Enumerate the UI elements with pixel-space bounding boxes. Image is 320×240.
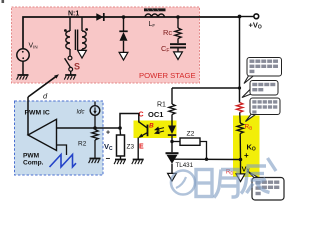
feedback drop wire: [239, 17, 241, 103]
transformer T1: [64, 17, 88, 50]
inductor LF: [145, 14, 165, 17]
svg-text:+: +: [106, 130, 110, 137]
svg-text:Comp.: Comp.: [23, 160, 44, 167]
injection resistor (red): [237, 103, 243, 113]
svg-text:LF: LF: [149, 21, 156, 28]
PWM IC box: [15, 101, 104, 175]
diode D1: [96, 13, 103, 20]
svg-text:RB: RB: [245, 124, 253, 131]
impedance Z3: [119, 128, 122, 135]
resistor RB: [237, 123, 243, 133]
wire to R1: [172, 87, 240, 89]
svg-text:E: E: [139, 144, 144, 151]
freewheeling diode D2: [123, 17, 125, 31]
svg-text:TL431: TL431: [176, 162, 194, 169]
svg-text:OC1: OC1: [148, 110, 163, 119]
svg-text:+: +: [244, 151, 249, 160]
svg-text:B: B: [149, 123, 154, 130]
emitter wire: [137, 138, 139, 160]
current source IDC: [94, 102, 96, 107]
svg-text:PWM: PWM: [23, 153, 40, 160]
d arrow: [28, 77, 56, 97]
corner mark: [2, 0, 5, 3]
wire: [22, 61, 24, 75]
power stage box: [12, 7, 200, 83]
svg-text:Z2: Z2: [187, 131, 195, 138]
svg-text:R1: R1: [157, 102, 166, 109]
comparator output wire: [27, 97, 29, 135]
switch S: [69, 49, 71, 56]
node ref/divider: [239, 158, 243, 162]
impedance Z2: [170, 140, 173, 143]
svg-text:Rc: Rc: [163, 28, 172, 37]
resistor R2: [92, 130, 98, 140]
ground under switch: [64, 75, 76, 80]
PWM comparator: [28, 119, 57, 150]
svg-text:S: S: [74, 62, 80, 72]
node J1: [122, 15, 126, 19]
watermark logo circle: [171, 171, 195, 195]
sawtooth input wire: [57, 145, 67, 155]
REF wire: [174, 158, 241, 160]
svg-text:Z3: Z3: [127, 144, 135, 151]
light arrows: [155, 127, 164, 133]
node J2: [176, 15, 180, 19]
callout bubble 1: [244, 58, 282, 84]
opto LED: [168, 126, 176, 135]
watermark char RI: [196, 170, 212, 197]
TL431 U2: [166, 152, 179, 154]
sawtooth: [50, 155, 77, 168]
watermark char CHEN: [241, 158, 276, 194]
optocoupler highlight box OC1: [134, 121, 177, 139]
opto transistor: [147, 125, 149, 137]
core bar: [144, 8, 166, 11]
output terminal: [238, 15, 242, 19]
secondary return wire: [81, 49, 83, 51]
svg-text:Idc: Idc: [77, 110, 85, 116]
collector wire: [120, 114, 139, 129]
ground: [17, 75, 29, 80]
svg-text:VIN: VIN: [29, 43, 38, 50]
callout bubble 4: [248, 172, 284, 201]
wire top rail: [23, 17, 240, 49]
svg-text:POWER STAGE: POWER STAGE: [139, 71, 196, 80]
svg-text:N:1: N:1: [68, 10, 79, 17]
resistor RC: [177, 17, 179, 28]
capacitor CF: [177, 39, 179, 44]
callout bubble 3: [246, 98, 281, 122]
source VIN: [17, 49, 29, 61]
watermark char YUE: [214, 170, 238, 198]
svg-text:R2: R2: [78, 141, 87, 148]
callout bubble 2: [242, 81, 278, 98]
divider highlight band: [233, 116, 260, 178]
svg-text:−: −: [106, 154, 111, 163]
VC rail: [57, 127, 121, 129]
